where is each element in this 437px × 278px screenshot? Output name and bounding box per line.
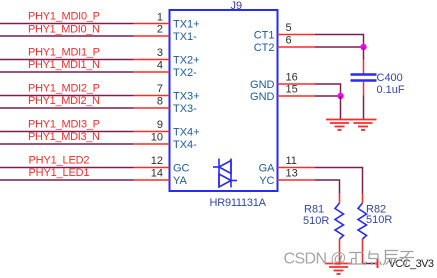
wire C400 to ground xyxy=(363,96,365,120)
svg-text:TX4-: TX4- xyxy=(173,139,197,151)
designator J9 xyxy=(231,0,243,12)
net label PHY1_MDI2_P xyxy=(28,83,100,95)
svg-text:TX4+: TX4+ xyxy=(173,127,200,139)
svg-text:10: 10 xyxy=(151,132,163,144)
pin 14 (YA) xyxy=(134,168,188,188)
svg-text:4: 4 xyxy=(157,60,163,72)
svg-text:7: 7 xyxy=(157,83,163,95)
svg-text:6: 6 xyxy=(286,35,292,47)
wire net PHY1_MDI2_N xyxy=(0,107,134,109)
net label PHY1_MDI0_N xyxy=(28,24,100,36)
svg-text:CSDN @: CSDN @ xyxy=(284,251,347,268)
svg-text:YA: YA xyxy=(173,175,188,187)
watermark chinese glyphs xyxy=(348,251,415,266)
svg-text:15: 15 xyxy=(286,84,298,96)
svg-text:14: 14 xyxy=(151,168,163,180)
pin 11 (GA) xyxy=(259,155,315,175)
net label PHY1_MDI0_P xyxy=(28,11,100,23)
pin 13 (YC) xyxy=(259,168,315,188)
value label 510R (R82) xyxy=(366,214,392,226)
wire junction down to C400 xyxy=(363,47,365,60)
svg-text:510R: 510R xyxy=(366,214,392,226)
svg-text:PHY1_MDI3_P: PHY1_MDI3_P xyxy=(28,119,100,131)
svg-text:TX1+: TX1+ xyxy=(173,19,200,31)
svg-text:GND: GND xyxy=(250,79,275,91)
svg-text:5: 5 xyxy=(286,22,292,34)
svg-text:PHY1_MDI1_P: PHY1_MDI1_P xyxy=(28,47,100,59)
value label 510R (R81) xyxy=(303,215,329,227)
net label PHY1_MDI3_P xyxy=(28,119,100,131)
pin 1 (TX1+) xyxy=(134,12,200,31)
wire GND pin16 to vertical xyxy=(315,84,341,96)
power net label VCC_3V3 xyxy=(389,258,435,270)
svg-text:GC: GC xyxy=(173,163,190,175)
svg-text:16: 16 xyxy=(286,72,298,84)
svg-text:TX1-: TX1- xyxy=(173,31,197,43)
svg-text:PHY1_MDI1_N: PHY1_MDI1_N xyxy=(28,59,100,71)
wire net PHY1_LED1 xyxy=(0,179,134,181)
ground symbol under R81 xyxy=(325,264,352,275)
svg-text:CT2: CT2 xyxy=(254,42,275,54)
LED bicolor diode symbol inside J9 xyxy=(213,159,237,188)
designator R82 xyxy=(366,204,386,216)
svg-text:3: 3 xyxy=(157,47,163,59)
svg-text:13: 13 xyxy=(286,168,298,180)
svg-text:TX3-: TX3- xyxy=(173,103,197,115)
value label HR911131A xyxy=(210,197,267,209)
svg-text:9: 9 xyxy=(157,119,163,131)
svg-text:1: 1 xyxy=(157,12,163,24)
pin 6 (CT2) xyxy=(254,35,315,55)
wire net PHY1_MDI1_N xyxy=(0,71,134,73)
net label PHY1_LED1 xyxy=(29,167,90,179)
wire CT2 pin6 to junction xyxy=(315,46,364,48)
net label PHY1_LED2 xyxy=(29,155,90,167)
connector J9 body xyxy=(170,10,278,191)
value label 0.1uF xyxy=(377,84,405,96)
pin 5 (CT1) xyxy=(254,22,315,42)
pin 2 (TX1-) xyxy=(134,24,198,44)
svg-text:YC: YC xyxy=(259,175,274,187)
svg-text:PHY1_MDI3_N: PHY1_MDI3_N xyxy=(28,131,100,143)
pin 12 (GC) xyxy=(134,155,190,175)
net label PHY1_MDI3_N xyxy=(28,131,100,143)
svg-text:PHY1_MDI2_P: PHY1_MDI2_P xyxy=(28,83,100,95)
svg-text:PHY1_LED2: PHY1_LED2 xyxy=(29,155,90,167)
svg-text:HR911131A: HR911131A xyxy=(210,197,267,209)
pin 10 (TX4-) xyxy=(134,132,198,152)
net label PHY1_MDI1_N xyxy=(28,59,100,71)
capacitor C400 xyxy=(351,60,377,96)
pin 8 (TX3-) xyxy=(134,96,198,116)
pin 16 (GND) xyxy=(250,72,315,92)
svg-text:TX2+: TX2+ xyxy=(173,55,200,67)
resistor R81 xyxy=(335,194,344,264)
wire net PHY1_MDI0_P xyxy=(0,23,134,25)
svg-text:TX3+: TX3+ xyxy=(173,91,200,103)
net label PHY1_MDI2_N xyxy=(28,95,100,107)
resistor R82 xyxy=(358,194,367,264)
wire junction to ground xyxy=(340,96,342,120)
wire net PHY1_MDI0_N xyxy=(0,35,134,37)
svg-text:C400: C400 xyxy=(377,72,403,84)
svg-text:11: 11 xyxy=(286,155,297,167)
svg-text:R81: R81 xyxy=(304,204,324,216)
pin 3 (TX2+) xyxy=(134,47,200,67)
svg-text:GND: GND xyxy=(250,91,275,103)
svg-text:PHY1_MDI0_P: PHY1_MDI0_P xyxy=(28,11,100,23)
wire net PHY1_MDI2_P xyxy=(0,95,134,97)
ground symbol under C400 xyxy=(350,120,377,131)
svg-text:0.1uF: 0.1uF xyxy=(377,84,405,96)
svg-text:CT1: CT1 xyxy=(254,30,275,42)
designator C400 xyxy=(377,72,403,84)
svg-text:VCC_3V3: VCC_3V3 xyxy=(389,258,435,270)
ground symbol GND net xyxy=(326,120,353,131)
junction CT node xyxy=(360,44,366,50)
wire R82 to power bar xyxy=(363,263,377,265)
wire GA pin11 to R82 xyxy=(315,168,363,194)
power symbol VCC_3V3 bar xyxy=(377,258,379,268)
pin 7 (TX3+) xyxy=(134,83,200,103)
designator R81 xyxy=(304,204,324,216)
svg-text:PHY1_MDI2_N: PHY1_MDI2_N xyxy=(28,95,100,107)
svg-text:PHY1_LED1: PHY1_LED1 xyxy=(29,167,90,179)
wire net PHY1_MDI3_N xyxy=(0,143,134,145)
wire CT1 pin5 to vertical xyxy=(315,35,364,48)
pin 9 (TX4+) xyxy=(134,119,200,139)
wire net PHY1_MDI3_P xyxy=(0,131,134,133)
wire YC pin13 to R81 xyxy=(315,180,340,194)
svg-text:TX2-: TX2- xyxy=(173,67,197,79)
wire net PHY1_MDI1_P xyxy=(0,59,134,61)
watermark CSDN @ xyxy=(284,251,347,268)
svg-text:12: 12 xyxy=(151,155,163,167)
net label PHY1_MDI1_P xyxy=(28,47,100,59)
svg-text:2: 2 xyxy=(157,24,163,36)
svg-text:510R: 510R xyxy=(303,215,329,227)
pin 4 (TX2-) xyxy=(134,60,198,80)
pin 15 (GND) xyxy=(250,84,315,104)
wire net PHY1_LED2 xyxy=(0,167,134,169)
svg-text:J9: J9 xyxy=(231,0,243,12)
svg-text:8: 8 xyxy=(157,96,163,108)
wire GND pin15 to junction xyxy=(315,95,341,97)
svg-text:GA: GA xyxy=(259,163,276,175)
junction GND node xyxy=(337,93,343,99)
svg-text:PHY1_MDI0_N: PHY1_MDI0_N xyxy=(28,24,100,36)
